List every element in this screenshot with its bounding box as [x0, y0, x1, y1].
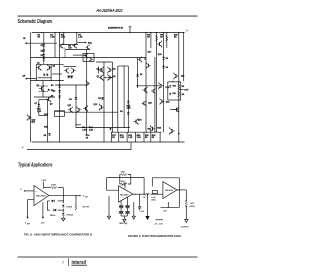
svg-text:D8: D8: [140, 74, 142, 76]
svg-text:HA-2620: HA-2620: [36, 194, 46, 197]
svg-text:D9: D9: [166, 67, 168, 69]
svg-text:R18: R18: [173, 86, 176, 88]
svg-text:1.1K: 1.1K: [128, 137, 133, 139]
svg-text:OUTPUT: OUTPUT: [181, 227, 190, 229]
svg-text:Typical Applications: Typical Applications: [18, 162, 53, 168]
svg-text:(50Ω): (50Ω): [190, 206, 195, 208]
svg-text:1.1K: 1.1K: [37, 111, 42, 113]
svg-text:1.5K: 1.5K: [78, 37, 83, 39]
svg-text:+15V: +15V: [41, 180, 47, 182]
svg-text:R9: R9: [166, 58, 168, 60]
svg-text:1mH: 1mH: [151, 197, 156, 199]
svg-text:Schematic Diagram: Schematic Diagram: [18, 19, 53, 25]
svg-text:HA-2620: HA-2620: [165, 189, 173, 192]
svg-text:Q22: Q22: [181, 76, 184, 78]
svg-text:FIGURE 9. FUNCTION GENERATOR 1: FIGURE 9. FUNCTION GENERATOR 1MHz: [128, 234, 182, 238]
svg-text:BANDWIDTH IN: BANDWIDTH IN: [108, 27, 123, 30]
svg-text:1.8K: 1.8K: [50, 37, 55, 39]
svg-text:100K: 100K: [121, 172, 126, 174]
svg-text:4.4K: 4.4K: [127, 106, 132, 109]
svg-text:1.8K: 1.8K: [82, 129, 87, 131]
svg-text:pF + 100: pF + 100: [155, 224, 163, 226]
svg-text:+IN: +IN: [22, 75, 26, 77]
svg-text:+15V: +15V: [120, 184, 125, 186]
svg-text:1.1K: 1.1K: [137, 137, 142, 139]
svg-text:1.5K: 1.5K: [61, 37, 66, 39]
svg-text:HA-2620: HA-2620: [120, 193, 128, 196]
svg-text:REF: REF: [27, 223, 30, 225]
svg-text:±2.5: ±2.5: [141, 211, 145, 213]
svg-text:2K POT: 2K POT: [83, 206, 91, 208]
svg-text:1.1K: 1.1K: [120, 137, 125, 139]
svg-text:OUT: OUT: [85, 196, 88, 198]
svg-text:1N5232: 1N5232: [66, 214, 73, 216]
svg-text:100K: 100K: [51, 184, 56, 186]
svg-text:FIG. 8 - HIGH INPUT IMPEDANCE: FIG. 8 - HIGH INPUT IMPEDANCE COMPARATOR…: [24, 233, 92, 237]
svg-text:R19: R19: [173, 93, 176, 95]
svg-text:1 kΩ: 1 kΩ: [190, 203, 195, 205]
svg-text:1N914: 1N914: [50, 214, 57, 217]
svg-text:1N914 (4): 1N914 (4): [119, 222, 128, 225]
svg-text:HA-2620/HA-2622: HA-2620/HA-2622: [97, 8, 123, 13]
svg-text:V-: V-: [22, 147, 24, 149]
svg-text:1N914: 1N914: [66, 205, 73, 208]
svg-text:7: 7: [62, 261, 64, 265]
svg-text:100Ω: 100Ω: [151, 200, 156, 202]
svg-text:2.4K: 2.4K: [89, 128, 94, 131]
